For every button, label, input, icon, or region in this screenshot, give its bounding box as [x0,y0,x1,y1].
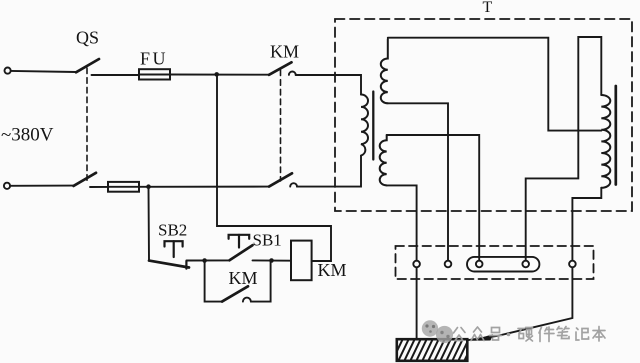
wire [296,75,361,95]
contactor KM auxiliary contact [222,286,251,301]
wire (welding cable) [468,267,573,340]
wire [253,259,292,261]
contactor KM main contact 1 [269,62,296,75]
reactor core [614,86,617,185]
fuse FU2 [108,182,139,192]
switch QS pole 1 blade [76,59,99,72]
svg-text:FU: FU [140,49,168,69]
terminal 3 [476,261,483,268]
wire (reactor top loop) [526,37,602,261]
wire (control tap from phase B) [148,189,151,261]
wire [139,186,269,188]
svg-text:T: T [483,0,493,16]
node B [269,258,274,263]
wire [92,74,140,76]
fuse FU [139,69,170,79]
terminal 4 [522,261,529,268]
node A [202,258,207,263]
wire (electrode lead) [416,267,418,339]
terminal 5 [569,261,576,268]
wire [186,259,229,261]
wire [572,188,601,261]
terminal L1 [5,68,11,74]
transformer secondary winding (lower section) [380,135,387,185]
wire (aux branch right) [251,261,271,302]
shorting link bar [467,257,539,272]
svg-text:~380V: ~380V [1,125,54,146]
junction node [146,184,151,189]
wire [170,74,269,76]
electrode / workpiece (hatched) [392,339,481,362]
watermark text (公众号·硬件笔记本) [454,327,606,342]
contactor KM main contact 2 [269,173,297,186]
transformer primary winding [361,95,368,156]
wire [90,186,108,188]
transformer enclosure T (dashed box) [335,19,632,211]
wire [388,103,448,260]
svg-text:KM: KM [318,260,347,280]
terminal block (dashed box) [396,246,594,279]
wire (control tap from phase A) [217,77,331,262]
svg-text:SB2: SB2 [158,221,187,240]
pushbutton SB2 (NC stop button) [149,241,189,268]
wire [387,135,480,261]
wire [297,156,361,187]
watermark logo [422,320,453,343]
transformer secondary winding (upper section) [381,39,388,103]
transformer core (left) [372,92,374,160]
contactor KM mechanical link (dashed) [280,70,282,181]
terminal L2 [4,183,10,189]
terminal 2 [445,261,452,268]
switch QS mechanical link (dashed) [86,68,88,181]
cable arrowhead [470,334,493,341]
terminal 1 [413,261,420,268]
switch QS pole 2 blade [74,173,97,186]
junction node [214,72,219,77]
svg-text:KM: KM [229,268,258,288]
reactor winding [601,95,610,188]
wire [11,71,76,72]
wire (aux branch left) [205,261,222,302]
wire [10,185,73,187]
svg-text:QS: QS [76,28,99,48]
svg-text:SB1: SB1 [253,231,282,250]
contactor coil KM [291,241,312,281]
wire [387,185,417,260]
pushbutton SB1 (NO start button) [229,235,253,260]
svg-text:KM: KM [270,42,299,62]
wire (secondary top link and centre tap) [388,38,602,131]
